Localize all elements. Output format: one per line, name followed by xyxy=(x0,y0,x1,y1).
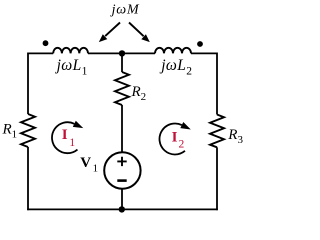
mesh current I2 arrow xyxy=(159,122,190,154)
resistor R2 xyxy=(115,72,129,105)
wire top-middle segment xyxy=(88,52,155,54)
wire top-right segment xyxy=(191,52,217,54)
svg-text:jωM: jωM xyxy=(110,3,140,18)
resistor R1 xyxy=(21,114,35,147)
wire middle below V1 xyxy=(121,189,123,210)
wire top-left segment xyxy=(28,52,53,54)
resistor R3 xyxy=(210,115,224,148)
wire left side lower xyxy=(27,147,29,210)
mesh current I1 arrow xyxy=(52,121,83,153)
node bottom junction xyxy=(119,206,125,212)
inductor L1 (jwL1) xyxy=(53,48,88,54)
coupling dot left xyxy=(43,40,49,46)
inductor L2 (jwL2) xyxy=(155,48,191,54)
wire middle upper xyxy=(121,53,123,72)
svg-text:I: I xyxy=(62,127,68,143)
svg-text:1: 1 xyxy=(93,162,99,174)
wire bottom xyxy=(27,208,218,210)
svg-text:1: 1 xyxy=(69,137,75,149)
voltage source V1 xyxy=(104,152,140,188)
svg-text:2: 2 xyxy=(179,138,185,150)
wire right side lower xyxy=(216,147,218,210)
svg-text:I: I xyxy=(172,130,178,146)
wire left side upper xyxy=(27,53,29,115)
svg-text:V: V xyxy=(80,155,91,171)
arrow from jwM to L2 xyxy=(129,23,150,43)
node top junction xyxy=(119,50,125,56)
wire right side upper xyxy=(216,53,218,115)
wire middle between R2 and V1 xyxy=(121,105,123,152)
coupling dot right xyxy=(197,41,203,47)
arrow from jwM to L1 xyxy=(99,23,120,43)
